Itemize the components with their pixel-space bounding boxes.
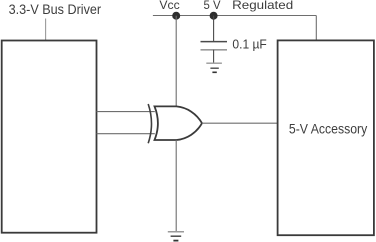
wire: input A from bus driver <box>97 111 155 113</box>
wire: gate output to 5-V accessory <box>202 122 278 124</box>
box: 5-V accessory <box>278 40 374 235</box>
XOR gate U2 body <box>155 106 203 140</box>
wire: capacitor to ground <box>213 50 215 63</box>
svg-text:Regulated: Regulated <box>232 0 293 12</box>
ground symbol (gate) <box>168 232 184 241</box>
ground symbol (capacitor) <box>206 63 222 72</box>
box U1: 3.3-V bus driver <box>2 41 97 233</box>
svg-text:5 V: 5 V <box>204 0 221 12</box>
wire: input B from bus driver <box>97 133 155 135</box>
wire: Vcc to gate power pin <box>175 16 177 107</box>
XOR gate U2 input arc <box>148 104 151 143</box>
svg-text:0.1 µF: 0.1 µF <box>232 37 267 51</box>
junction dot: Vcc <box>172 12 180 20</box>
svg-text:3.3-V Bus Driver: 3.3-V Bus Driver <box>9 1 102 17</box>
leader line from label to bus driver box <box>45 19 47 41</box>
wire: gate ground pin <box>175 140 177 232</box>
wire: 5 V to capacitor <box>213 16 215 42</box>
junction dot: 5 V <box>210 12 218 20</box>
capacitor C1 top plate <box>201 41 228 43</box>
capacitor C1 bottom plate <box>201 49 228 51</box>
wire: rail drop into 5-V accessory <box>315 16 317 41</box>
svg-text:5-V Accessory: 5-V Accessory <box>289 121 368 136</box>
svg-text:Vcc: Vcc <box>159 0 179 12</box>
wire: 5-V supply rail (horizontal) <box>153 15 316 17</box>
